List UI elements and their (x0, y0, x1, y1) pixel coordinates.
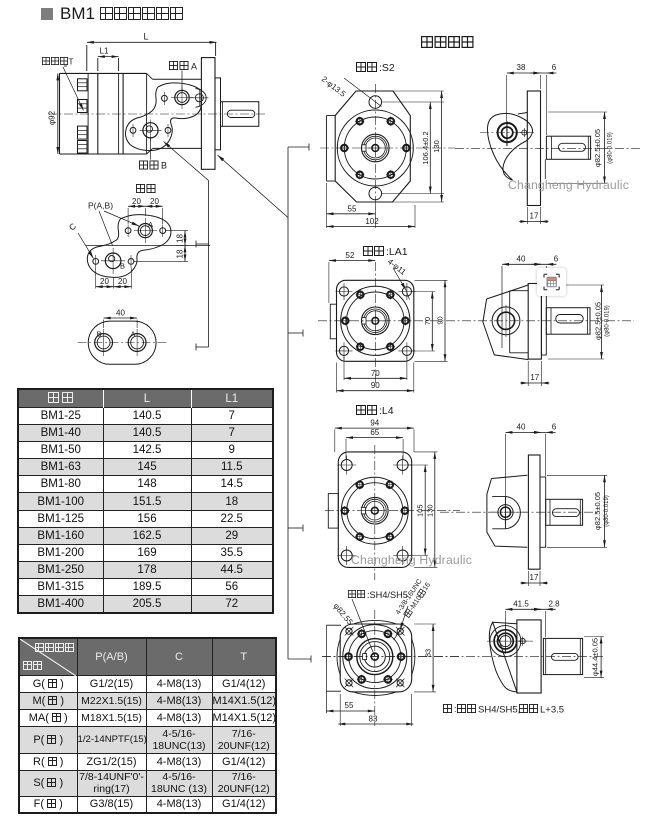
svg-text:6: 6 (552, 422, 557, 431)
port face view label 油口 (136, 184, 144, 192)
L4 side body (487, 475, 527, 547)
L4 dim 130 (414, 452, 438, 568)
svg-text::L4: :L4 (379, 405, 394, 417)
pilot ring (215, 78, 221, 150)
svg-text:105: 105 (416, 504, 425, 517)
svg-text:17: 17 (530, 373, 539, 382)
label phi82.55 with leader (331, 599, 374, 657)
svg-text:A: A (130, 330, 135, 339)
label port B with leader (139, 139, 167, 171)
LA1 dim 90 bottom (337, 363, 414, 393)
svg-text:B: B (120, 262, 125, 271)
shaft keyway (227, 110, 254, 117)
port A (face view) (125, 218, 165, 243)
SH axis centerline (322, 656, 604, 658)
dim 40 (oval view) (104, 309, 138, 329)
through-bolts on rear cover (78, 79, 88, 153)
svg-text:17: 17 (530, 212, 539, 221)
label port A with leader (169, 61, 197, 93)
S2 dim 102 (327, 205, 416, 228)
S2 side dim 38 (507, 63, 541, 146)
L4 side dim 17 (520, 571, 548, 586)
svg-text:106.4±0.2: 106.4±0.2 (421, 131, 430, 164)
motor body outline (60, 73, 202, 154)
L4 side port boss (490, 497, 527, 529)
L4 flange face circles and bolts (341, 477, 408, 544)
svg-text:83: 83 (424, 649, 433, 657)
LA1 side pilot (541, 287, 546, 355)
L4 side flange plate (528, 455, 540, 569)
main motor side view: dimension L (87, 32, 217, 72)
svg-text:B: B (96, 330, 101, 339)
svg-text:90: 90 (371, 381, 380, 390)
L4 side dim 40 (505, 422, 541, 528)
S2 side phi82.5 dim (548, 112, 614, 184)
label 2-phi13.5 with leader (320, 74, 382, 106)
svg-text:L: L (143, 32, 148, 42)
svg-text:B: B (161, 161, 167, 171)
L4 dim 105 (409, 465, 429, 556)
svg-text:18: 18 (175, 249, 184, 258)
SH flange face circles (343, 625, 407, 689)
svg-text:40: 40 (116, 309, 125, 318)
LA1 dim 70 right (412, 292, 435, 352)
mounting flange (side) (201, 58, 215, 170)
S2 dim 55 (327, 183, 376, 228)
svg-text::LA1: :LA1 (386, 246, 408, 258)
svg-text::SH4/SH5: :SH4/SH5 (367, 590, 408, 600)
SH side phi44.4 dim (584, 637, 604, 678)
LA1 flange outline (330, 280, 414, 361)
output shaft (221, 102, 259, 127)
svg-text:6: 6 (554, 254, 559, 263)
S2 flange face circles and bolts (337, 110, 413, 186)
LA1 corner holes 4-phi11 (335, 283, 415, 360)
table 1: model L/L1 (17, 388, 274, 614)
svg-text:A: A (191, 62, 197, 72)
flange L4 label (357, 405, 394, 417)
flange S2 front view outline (327, 91, 411, 202)
S2 mounting holes 2-phi13.5 (369, 96, 382, 200)
svg-text:18: 18 (175, 234, 184, 243)
oval flange view (78, 321, 168, 364)
L4 flange outline (328, 452, 411, 568)
SH corner holes (345, 627, 405, 687)
svg-text:83: 83 (369, 715, 378, 724)
svg-text:55: 55 (348, 204, 357, 213)
port A (main view) (162, 87, 194, 110)
label C with leader (67, 221, 94, 259)
svg-text:55: 55 (345, 701, 354, 710)
SH dim 83 right (414, 624, 436, 692)
L4 side dim 6 (531, 422, 557, 476)
svg-text:φ82.5±0.05: φ82.5±0.05 (594, 302, 603, 340)
svg-text:C: C (67, 221, 78, 233)
LA1 dim 70 bottom (344, 357, 407, 381)
svg-text:17: 17 (530, 573, 539, 582)
svg-text:130: 130 (432, 140, 441, 153)
flange LA1 label (364, 246, 408, 258)
label drain port T with leader (42, 57, 83, 111)
LA1 flange face circles and bolts (341, 286, 410, 355)
label P(A,B) with leaders (88, 201, 139, 247)
label 4-3/8-16UNC leader (394, 578, 433, 640)
LA1 centerlines (318, 262, 634, 384)
svg-text::S2: :S2 (379, 62, 395, 74)
S2 side dim 17 (519, 207, 548, 224)
svg-text:L1: L1 (100, 47, 109, 56)
svg-text::: : (454, 704, 457, 714)
translate-table overlay icon (537, 268, 566, 296)
L4 side phi82.5 dim (547, 475, 610, 547)
SH dim 83 bottom (338, 694, 413, 726)
SH side dim 2.8 (531, 599, 560, 637)
L4 dim 94 (335, 419, 414, 452)
L4 axis centerline (440, 511, 600, 513)
svg-text:65: 65 (370, 428, 379, 437)
SH side flange block (517, 620, 541, 693)
dimension phi92 (48, 73, 60, 154)
svg-text:70: 70 (423, 317, 432, 325)
LA1 dim 52 (329, 251, 375, 303)
S2 centerlines (320, 84, 455, 218)
LA1 side dim 6 (531, 254, 558, 306)
SH side dim 41.5 (505, 599, 541, 652)
S2 side view body blob (487, 113, 532, 181)
port B (main view) (130, 120, 171, 142)
SH centerlines (322, 610, 460, 726)
label 4-phi11 with leader (386, 257, 410, 300)
title text BM1 (安装连接尺寸 as fake glyphs) (60, 4, 183, 24)
svg-text:20: 20 (100, 277, 109, 286)
table 2: port thread types (18, 637, 277, 814)
watermark 2 (351, 553, 472, 567)
flange S2 label (357, 62, 395, 74)
SH side body blob (489, 622, 521, 692)
LA1 side phi82.5 dim (548, 285, 611, 359)
LA1 side shaft (546, 308, 590, 335)
svg-text:94: 94 (370, 419, 379, 428)
note: flange SH4/SH5 length L+3.5 (443, 704, 564, 716)
bracket leader to port views (164, 142, 209, 351)
svg-text:20: 20 (118, 277, 127, 286)
flange SH4/SH5 label (348, 590, 407, 600)
svg-text:102: 102 (365, 217, 379, 226)
main centerline (48, 113, 266, 115)
svg-text:(φ80-0.019): (φ80-0.019) (604, 495, 610, 527)
S2 dim 130 (393, 91, 445, 202)
svg-text:20: 20 (132, 197, 141, 206)
title bullet (41, 8, 53, 20)
svg-text:40: 40 (517, 254, 526, 263)
S2 side axis centerline (455, 147, 640, 149)
SH side port boss (487, 624, 533, 654)
S2 side shaft (546, 136, 590, 159)
L4 centerlines (325, 445, 460, 580)
flange port boss (side) (190, 89, 208, 108)
svg-text:L+3.5: L+3.5 (540, 705, 564, 716)
svg-text:2-φ13.5: 2-φ13.5 (320, 74, 348, 99)
LA1 side dim 40 (502, 254, 541, 265)
svg-text:P(A,B): P(A,B) (88, 201, 113, 211)
LA1 side body (483, 266, 528, 360)
watermark 1 (508, 178, 629, 192)
SH side shaft (543, 638, 582, 674)
bracket leader to flange variants (218, 144, 312, 663)
LA1 side dim 17 (520, 361, 549, 386)
S2 dim 106.4 (382, 102, 444, 194)
svg-text:A: A (148, 220, 153, 229)
svg-text:38: 38 (517, 63, 526, 72)
L4 side shaft (546, 499, 583, 525)
S2 side flange plate (527, 91, 540, 206)
svg-text:6: 6 (552, 63, 557, 72)
section title 连接尺寸 (422, 37, 473, 48)
svg-text:(φ80-0.019): (φ80-0.019) (605, 305, 611, 337)
svg-text:SH4/SH5,: SH4/SH5, (478, 705, 520, 716)
svg-text:T: T (68, 57, 73, 67)
dimension L1 (98, 47, 119, 72)
svg-text:40: 40 (517, 422, 526, 431)
SH dim 55 (326, 701, 374, 712)
L4 side pilot (540, 477, 546, 547)
LA1 side port boss (492, 305, 520, 337)
S2 side port boss (480, 121, 534, 146)
svg-text:130: 130 (425, 504, 434, 517)
port plate blob with ports A and B (126, 83, 202, 151)
L4 dim 65 (346, 428, 403, 459)
svg-text:φ82.55: φ82.55 (331, 602, 354, 628)
svg-text:90: 90 (436, 316, 445, 324)
svg-text:20: 20 (150, 197, 159, 206)
port B (face view) (93, 248, 134, 274)
oval port A (128, 329, 146, 356)
svg-text:φ44.4±0.05: φ44.4±0.05 (591, 638, 600, 676)
dims 18 18 right (face view) (134, 231, 188, 262)
svg-text:52: 52 (346, 251, 355, 260)
svg-text:φ92: φ92 (48, 110, 57, 125)
oval port B (95, 329, 113, 356)
svg-text:φ82.5±0.05: φ82.5±0.05 (593, 492, 602, 530)
SH flange outline (326, 620, 415, 713)
dims 20 20 top (face view) (128, 197, 163, 224)
LA1 dim 90 right (415, 280, 448, 361)
LA1 side flange plate (528, 284, 541, 360)
L4 corner holes (337, 456, 412, 566)
SH bolts (344, 629, 406, 684)
port face plate outline (86, 215, 210, 278)
dims 20 20 bottom (face view) (96, 268, 132, 289)
svg-text:41.5: 41.5 (513, 599, 529, 608)
svg-text:2.8: 2.8 (548, 599, 560, 608)
svg-text:70: 70 (371, 369, 380, 378)
S2 side dim 6 (530, 63, 556, 179)
